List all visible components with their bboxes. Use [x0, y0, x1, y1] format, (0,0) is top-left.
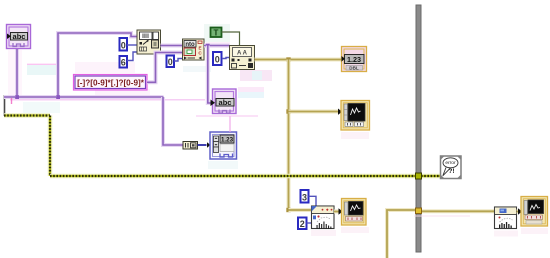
error wire: vertical drop	[48, 116, 53, 177]
wire: 0 to match node	[174, 59, 183, 62]
string control abc (top-left)	[7, 25, 31, 49]
wire: regex to match pattern	[147, 53, 183, 83]
waveform chart indicator	[338, 101, 370, 131]
wire: T to fract node	[222, 32, 240, 46]
numeric constant 0 (default for fract)	[213, 52, 222, 65]
numeric indicator 1.23	[342, 47, 367, 72]
svg-text:[-]?[0-9]*[.]?[0-9]*: [-]?[0-9]*[.]?[0-9]*	[77, 79, 145, 88]
boolean constant T	[211, 28, 222, 38]
wire: orange branch to histogram node	[289, 208, 312, 212]
svg-text:A A: A A	[237, 50, 248, 56]
array indicator	[207, 132, 237, 159]
wire: match out down to abc indicator	[208, 46, 213, 104]
node: junction dot orange mid	[286, 109, 290, 113]
node: junction dot orange bottom	[286, 208, 290, 212]
wire: subset out to match pattern	[161, 44, 183, 48]
svg-text:0: 0	[168, 57, 173, 67]
wire: 0 to subset node	[127, 44, 137, 46]
histogram chart indicator (right)	[518, 197, 548, 227]
numeric constant 2	[298, 218, 307, 230]
svg-text:T: T	[214, 28, 219, 37]
numeric constant 3	[301, 190, 309, 203]
structure: sequence frame edge (gray bar)	[416, 5, 421, 252]
function: Match Pattern node	[183, 39, 205, 60]
node: error wire tunnel on bar	[416, 173, 422, 179]
ghost: pink echo under right orange wire	[414, 215, 470, 217]
svg-text:1.23: 1.23	[221, 136, 234, 143]
function: String To Byte Array node	[183, 142, 198, 150]
wire: orange bar to histogram node right	[421, 209, 495, 213]
wire: bus branch down to byte node	[163, 97, 183, 145]
svg-text:2: 2	[300, 219, 305, 229]
function: Histogram VI node (middle)	[312, 206, 335, 229]
svg-text:abc: abc	[13, 32, 26, 41]
svg-text:1.23: 1.23	[347, 55, 361, 64]
wire: 0 to fract node	[222, 58, 230, 59]
node: junction dot bus/control	[15, 95, 19, 99]
function: String Subset node	[137, 30, 161, 54]
svg-text:0: 0	[215, 55, 220, 65]
svg-text:?!: ?!	[448, 168, 454, 175]
wire: 2 to histogram node	[307, 222, 312, 224]
svg-text:0: 0	[121, 40, 126, 50]
svg-text:nto: nto	[185, 42, 195, 48]
wire: orange vertical trunk	[287, 60, 291, 211]
svg-text:DBL: DBL	[349, 66, 359, 71]
vi: Simple Error Handler	[441, 156, 462, 179]
svg-text:abc: abc	[219, 98, 232, 107]
node: junction dot orange top	[286, 57, 290, 61]
svg-text:6: 6	[121, 58, 126, 68]
wire: 3 to histogram node top	[309, 196, 317, 206]
wire: byte array out to array indicator	[198, 144, 207, 146]
wire: bus branch up to String Subset	[58, 33, 137, 97]
wire: histogram out to chart	[334, 210, 342, 214]
error wire: left horizontal	[4, 113, 50, 118]
wire: left edge dark stub	[4, 95, 6, 116]
ghost: faint pink echo line under bus	[10, 99, 205, 101]
string indicator abc	[211, 89, 237, 114]
numeric constant 6 (length for subset)	[120, 56, 128, 68]
wire: fract out to numeric indicator	[255, 58, 342, 62]
node: orange wire tunnel on bar	[416, 208, 422, 214]
wire: control abc down to bus	[15, 49, 19, 97]
wire: orange branch to waveform chart	[289, 110, 342, 114]
svg-text:3: 3	[302, 192, 307, 202]
numeric constant 0 (offset for subset)	[120, 38, 128, 51]
ghost: pink lines near array indicator	[196, 116, 258, 132]
node: junction dot bus branch	[56, 95, 60, 99]
wire: histogram out to chart (right)	[517, 210, 522, 214]
wire: 6 to subset node	[127, 52, 137, 61]
ghost: pink stub below bus left	[11, 98, 13, 104]
wire: main string bus horizontal	[4, 95, 164, 99]
string constant regex	[74, 75, 148, 91]
histogram chart indicator (middle)	[339, 199, 367, 226]
function: Histogram VI node (right)	[495, 207, 517, 229]
wire: orange from bottom edge up to bar	[387, 210, 416, 258]
svg-text:error: error	[445, 160, 456, 166]
node: junction dot match out	[206, 44, 210, 48]
numeric constant 0 (offset for match)	[167, 56, 175, 68]
wire: match out to fract node	[204, 44, 230, 48]
error wire: long horizontal to bar	[50, 174, 416, 179]
error wire: bar to error handler	[421, 174, 441, 179]
function: Fract/Exp String To Number node	[230, 46, 255, 70]
